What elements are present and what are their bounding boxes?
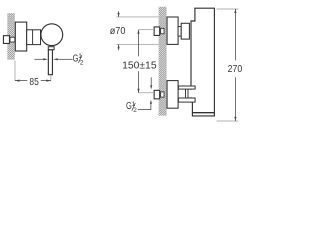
svg-text:2: 2 xyxy=(80,59,84,66)
150±15 dimension line with arrows xyxy=(137,30,139,93)
phi70 extension lines xyxy=(116,17,158,45)
lower web between flanges (right view) xyxy=(186,89,197,98)
supply fitting stub through wall (left view) xyxy=(10,37,15,42)
150±15 extension lines xyxy=(139,30,154,93)
lower small square through wall (right view) xyxy=(161,92,164,97)
270 dimension line with arrows xyxy=(234,9,236,121)
svg-text:85: 85 xyxy=(29,77,39,88)
upper supply fitting (right view) xyxy=(154,27,160,36)
svg-text:270: 270 xyxy=(228,64,243,75)
upper small square through wall (right view) xyxy=(161,28,164,33)
85 dimension line with arrows xyxy=(15,80,51,82)
wall hatch (left view) xyxy=(7,13,14,60)
upper plate (right view) xyxy=(167,17,178,44)
G1/2 leader with arrow (right view) xyxy=(138,100,152,110)
escutcheon plate (left view) xyxy=(15,22,26,51)
G1/2 upper arrow at fitting (right view) xyxy=(150,77,152,89)
column body (right view) xyxy=(191,8,214,116)
G1/2 label (left view) xyxy=(73,53,84,66)
svg-text:2: 2 xyxy=(133,107,137,114)
G1/2 arrows at outlet pipe (left view) xyxy=(35,58,73,60)
svg-text:150±15: 150±15 xyxy=(122,60,157,71)
supply fitting square (left view) xyxy=(3,36,9,44)
upper neck (right view) xyxy=(178,27,181,37)
outlet pipe (left view) xyxy=(48,50,52,75)
outlet collar under knob (left view) xyxy=(48,47,54,50)
control knob circle (left view) xyxy=(41,24,63,46)
mixer body neck (left view) xyxy=(27,30,41,45)
270 witness lines xyxy=(217,9,239,121)
upper union nut (right view) xyxy=(181,23,189,39)
lower plate (right view) xyxy=(167,81,178,109)
column bottom cap line (right view) xyxy=(192,112,214,114)
G1/2 label (right view) xyxy=(126,101,137,114)
lower bottom flange (right view) xyxy=(178,98,195,102)
lower top flange (right view) xyxy=(178,86,195,89)
phi70 outside arrows xyxy=(118,11,120,50)
svg-text:ø70: ø70 xyxy=(110,26,126,37)
wall hatch (right view) xyxy=(159,7,167,116)
lower supply fitting (right view) xyxy=(154,90,160,99)
85 dimension extension lines xyxy=(15,61,51,82)
